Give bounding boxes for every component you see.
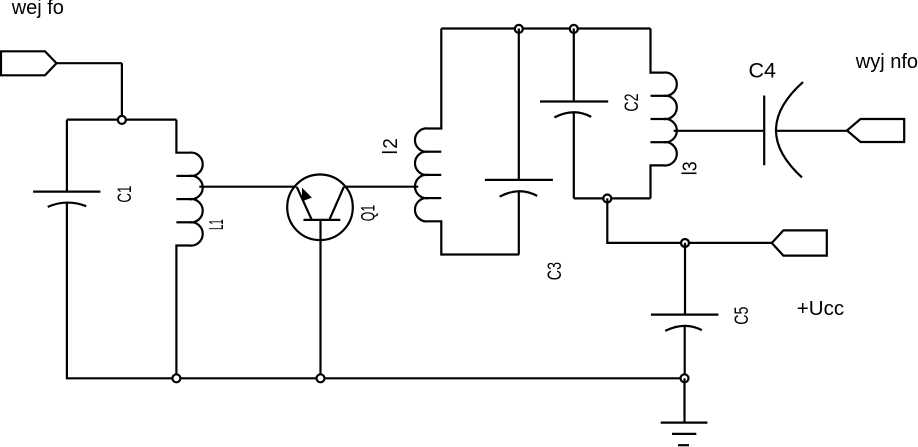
terminal +Ucc [772, 230, 827, 255]
wire input to corner [57, 62, 122, 64]
svg-text:C3: C3 [544, 262, 565, 280]
capacitor C1 [33, 192, 100, 207]
svg-text:l2: l2 [380, 138, 403, 154]
svg-text:wyj nfo: wyj nfo [855, 51, 918, 73]
transistor Q1 [287, 175, 353, 241]
wire C3 bottom lead [518, 191, 520, 254]
svg-text:C1: C1 [115, 186, 136, 203]
wire C5 top lead [684, 243, 686, 315]
wire Q1 to L2 tap [344, 186, 419, 188]
svg-text:L1: L1 [206, 219, 228, 230]
wire node to Ucc line [607, 198, 772, 243]
inductor L1 [176, 120, 202, 379]
wire Q1 base lead to rail [319, 220, 321, 378]
svg-text:l3: l3 [680, 161, 702, 175]
svg-text:C4: C4 [749, 58, 777, 82]
ground [661, 423, 708, 446]
svg-text:C2: C2 [621, 93, 642, 111]
node rail L1 [172, 374, 180, 382]
capacitor C3 [485, 180, 553, 197]
capacitor C5 [651, 315, 719, 331]
node top rail right [570, 25, 578, 33]
node A [118, 116, 126, 124]
terminal input wej [1, 51, 57, 75]
wire C2 bottom lead [573, 112, 575, 198]
terminal output wyj [847, 119, 904, 142]
wire tank bottom [574, 197, 651, 199]
node rail Q1 [317, 374, 325, 382]
svg-text:C5: C5 [731, 307, 752, 325]
inductor L3 [651, 29, 677, 199]
node rail C5 [681, 374, 689, 382]
wire top rail [441, 27, 650, 29]
wire C3 top lead [518, 29, 520, 180]
svg-text:+Ucc: +Ucc [797, 297, 844, 320]
wire top horizontal C1 to L1 [67, 118, 176, 120]
wire ground lead [683, 378, 685, 422]
capacitor C4 [764, 82, 803, 177]
svg-text:wej fo: wej fo [11, 0, 64, 19]
wire corner down to node A [121, 63, 123, 119]
svg-text:Q1: Q1 [358, 205, 379, 222]
wire C4 to output terminal [777, 130, 848, 132]
wire C1 top lead [66, 120, 68, 192]
wire L1 tap to Q1 [199, 186, 296, 188]
wire C2 top lead [573, 29, 575, 102]
inductor L2 [415, 29, 519, 255]
wire C5 bottom lead [684, 326, 686, 378]
capacitor C2 [540, 102, 608, 118]
node top rail left [515, 25, 523, 33]
node tank bottom [603, 195, 611, 203]
wire C1 bottom lead and bottom rail [67, 203, 685, 379]
node Ucc wire [681, 239, 689, 247]
wire L3 tap to C4 [674, 130, 763, 132]
